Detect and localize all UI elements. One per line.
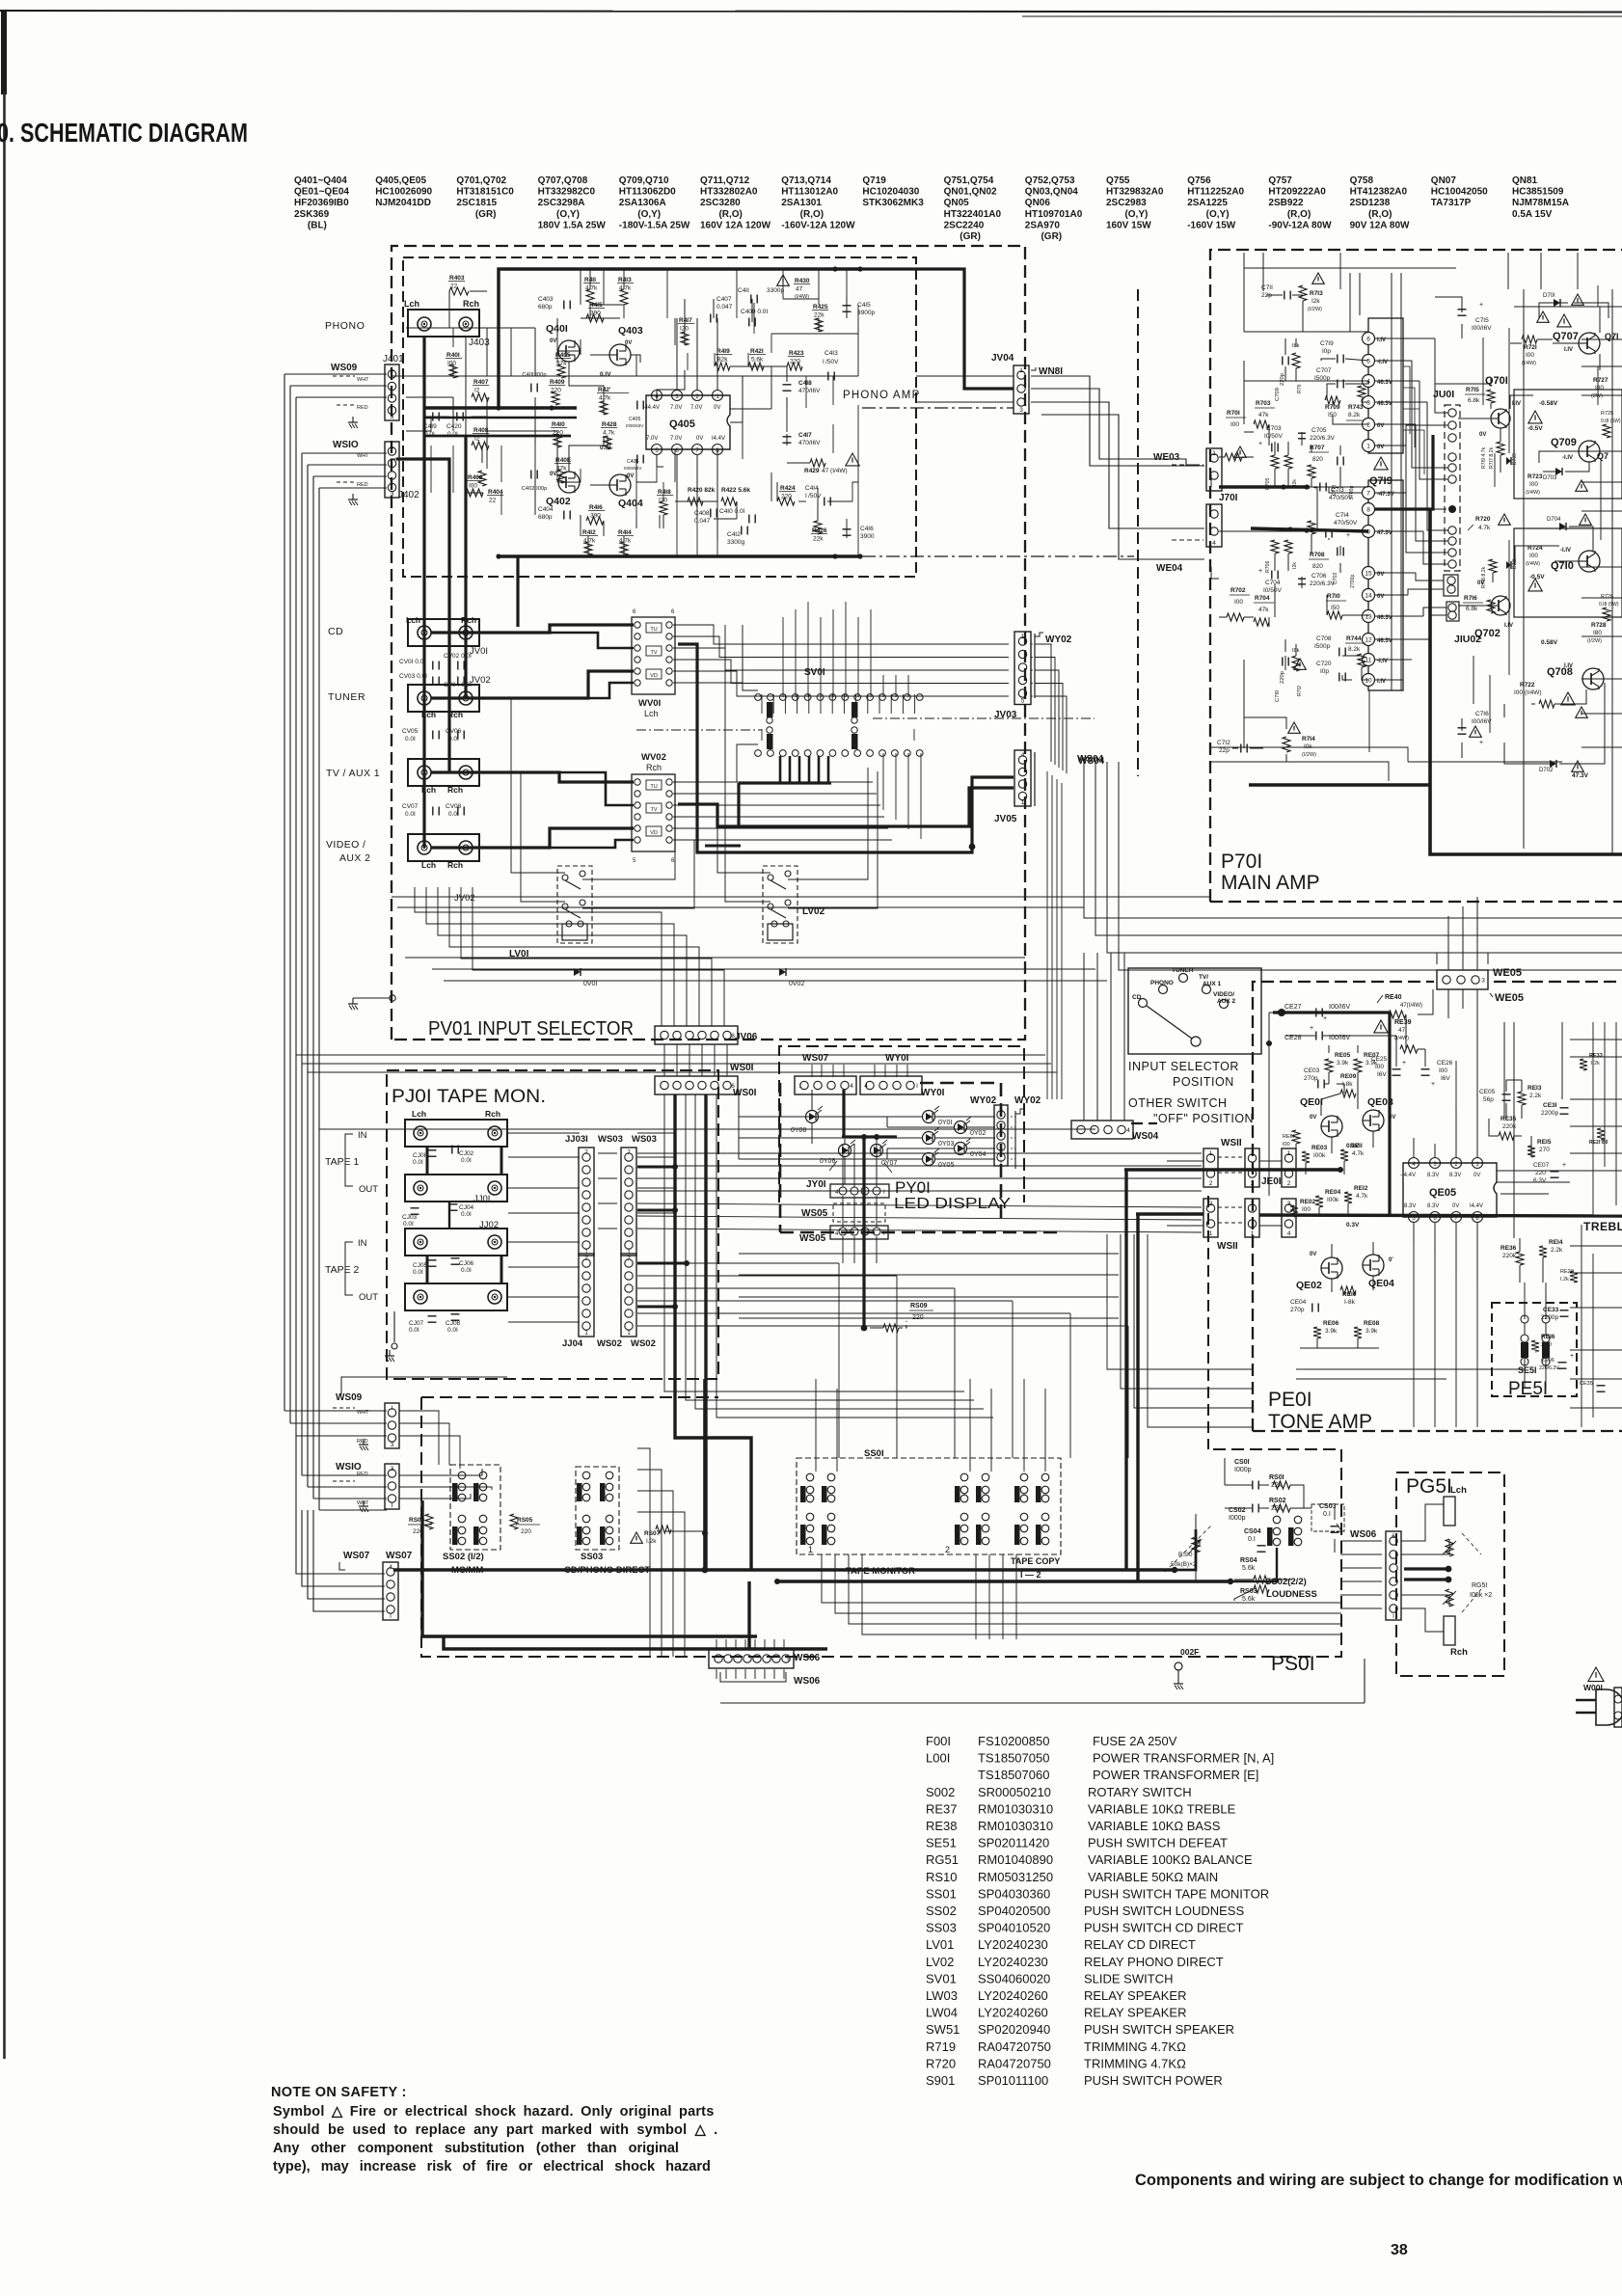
long horizontals below selector <box>296 1054 1045 1056</box>
svg-text:3.9k: 3.9k <box>1365 1328 1378 1335</box>
svg-text:5.6k: 5.6k <box>1242 1596 1256 1603</box>
svg-text:SS01: SS01 <box>926 1886 957 1901</box>
svg-text:PS0I: PS0I <box>1271 1653 1315 1675</box>
svg-text:WV02: WV02 <box>641 752 666 763</box>
svg-text:HC10026090: HC10026090 <box>375 187 432 198</box>
svg-text:C4I0 0.0I: C4I0 0.0I <box>719 508 745 515</box>
svg-text:JV03: JV03 <box>994 710 1017 720</box>
svg-text:C4I8: C4I8 <box>798 380 812 387</box>
svg-text:Lch: Lch <box>644 709 659 718</box>
svg-text:VARIABLE 10KΩ TREBLE: VARIABLE 10KΩ TREBLE <box>1088 1801 1236 1816</box>
led DY07 <box>871 1145 883 1157</box>
svg-text:R7I6: R7I6 <box>1464 595 1477 602</box>
svg-text:PE5I: PE5I <box>1508 1379 1548 1399</box>
svg-text:C4I5: C4I5 <box>857 302 871 309</box>
svg-text:NOTE ON SAFETY :: NOTE ON SAFETY : <box>271 2085 407 2100</box>
capacitor C419 C420 <box>432 413 434 421</box>
svg-text:0.I8 (5W): 0.I8 (5W) <box>1601 419 1621 424</box>
svg-text:WSIO: WSIO <box>333 440 359 450</box>
svg-text:4: 4 <box>1287 1230 1291 1237</box>
svg-text:R726: R726 <box>1601 594 1613 600</box>
svg-text:R425: R425 <box>813 304 828 311</box>
svg-text:CJ02: CJ02 <box>459 1150 474 1157</box>
svg-text:J70I: J70I <box>1219 493 1238 503</box>
warning triangle R430 <box>777 275 790 285</box>
led DY06 <box>839 1145 852 1157</box>
ic Q719 pin ladder lower <box>1368 480 1403 690</box>
selector switch to JV03 wires <box>673 625 1009 644</box>
connector WS01 lower <box>655 1076 738 1094</box>
svg-text:RE38: RE38 <box>926 1819 958 1833</box>
svg-text:RG5I: RG5I <box>1472 1582 1487 1589</box>
svg-text:0V: 0V <box>550 338 556 344</box>
svg-text:7.0V: 7.0V <box>646 436 658 442</box>
svg-text:SS02 (I/2): SS02 (I/2) <box>443 1552 484 1562</box>
svg-text:I /50V: I /50V <box>823 359 839 365</box>
svg-text:Q403: Q403 <box>618 325 643 337</box>
sv01 riser wires <box>782 617 784 697</box>
tape2 out jacks <box>405 1283 507 1310</box>
svg-text:(2W): (2W) <box>1591 393 1603 399</box>
phono wire mesh <box>423 337 425 408</box>
svg-text:Q713,Q714: Q713,Q714 <box>781 176 831 186</box>
ws06 pg51 harness wires <box>1340 1540 1382 1542</box>
svg-text:RE2I I50: RE2I I50 <box>1589 1140 1608 1146</box>
svg-text:5: 5 <box>1366 359 1370 365</box>
ic QE05 <box>1403 1163 1497 1217</box>
svg-text:R7I5: R7I5 <box>1466 387 1479 393</box>
svg-text:1: 1 <box>391 444 394 450</box>
ws09 top stubs <box>284 373 387 375</box>
svg-text:2SC2983: 2SC2983 <box>1106 198 1147 208</box>
svg-text:I.2k: I.2k <box>646 1538 657 1545</box>
ws07 bottom harness <box>296 1436 385 1574</box>
ground WS09 bottom <box>363 1439 365 1445</box>
svg-text:REII: REII <box>1350 1143 1363 1149</box>
ws01 down bundle <box>664 1094 964 1391</box>
svg-text:3: 3 <box>1019 407 1023 414</box>
svg-text:I0p: I0p <box>1322 348 1331 355</box>
svg-text:0V: 0V <box>627 473 634 479</box>
svg-text:-0.5V: -0.5V <box>1527 425 1543 432</box>
svg-text:TV: TV <box>650 807 657 813</box>
svg-text:R423: R423 <box>789 350 804 357</box>
svg-text:0.0I: 0.0I <box>461 1157 472 1164</box>
svg-text:I00: I00 <box>1234 599 1243 606</box>
svg-text:0': 0' <box>1389 1257 1393 1263</box>
video/aux2 input jacks <box>408 834 479 861</box>
svg-text:1: 1 <box>627 1330 631 1337</box>
svg-text:HT109701A0: HT109701A0 <box>1025 209 1083 220</box>
WN81 harness lines <box>1036 375 1041 377</box>
svg-text:PUSH SWITCH TAPE MONITOR: PUSH SWITCH TAPE MONITOR <box>1084 1886 1269 1901</box>
harness dashed line x1180 <box>1137 289 1139 776</box>
svg-text:Q405,QE05: Q405,QE05 <box>375 176 426 186</box>
svg-text:3: 3 <box>1481 978 1485 985</box>
svg-text:1: 1 <box>1251 1150 1255 1157</box>
svg-text:1: 1 <box>1021 634 1025 640</box>
svg-text:2SA1225: 2SA1225 <box>1187 198 1228 208</box>
svg-text:6.8k: 6.8k <box>1466 606 1478 612</box>
svg-text:CJ08: CJ08 <box>446 1320 461 1327</box>
svg-text:I00: I00 <box>1439 1067 1447 1074</box>
svg-text:R744: R744 <box>1346 635 1362 642</box>
svg-text:3: 3 <box>1251 1201 1255 1207</box>
svg-text:I2k: I2k <box>1311 298 1320 305</box>
svg-text:3900: 3900 <box>860 533 875 540</box>
svg-text:1: 1 <box>1212 450 1216 457</box>
svg-text:-90V-12A 80W: -90V-12A 80W <box>1268 220 1332 230</box>
capacitor C709 220p R711 18k <box>1280 373 1285 386</box>
svg-text:7: 7 <box>627 1256 631 1262</box>
svg-text:6: 6 <box>787 1657 791 1663</box>
svg-text:R403: R403 <box>449 275 465 282</box>
switch SE51 <box>1521 1315 1528 1323</box>
svg-text:(R,O): (R,O) <box>1350 209 1392 220</box>
svg-text:R42': R42' <box>598 387 611 393</box>
svg-text:HT412382A0: HT412382A0 <box>1350 187 1408 198</box>
svg-text:R702: R702 <box>1230 587 1246 594</box>
thick ws01 feeds <box>675 1094 751 1570</box>
svg-text:QN06: QN06 <box>1025 198 1051 208</box>
svg-text:+: + <box>1562 1162 1566 1169</box>
svg-text:2SC3298A: 2SC3298A <box>538 198 585 208</box>
svg-text:TV / AUX 1: TV / AUX 1 <box>326 768 380 779</box>
svg-text:Lch: Lch <box>421 860 436 870</box>
svg-text:2SK369: 2SK369 <box>294 209 330 220</box>
svg-text:I: I <box>392 1405 393 1412</box>
svg-text:0Y03: 0Y03 <box>938 1141 954 1148</box>
tone verticals from QE05 <box>1413 1244 1415 1427</box>
svg-text:(GR): (GR) <box>944 231 981 242</box>
svg-text:0.0I: 0.0I <box>405 736 416 743</box>
svg-text:RE08: RE08 <box>1364 1320 1380 1327</box>
svg-text:CS03: CS03 <box>1319 1503 1337 1510</box>
resistor R713 with warning <box>1312 273 1325 284</box>
diode DV01 <box>574 968 581 976</box>
thick feeds to JV05 <box>678 788 1014 826</box>
svg-text:JV06: JV06 <box>735 1032 758 1042</box>
svg-text:C4I7: C4I7 <box>798 432 812 439</box>
svg-text:I.2k: I.2k <box>1591 1061 1600 1067</box>
main amp right stubs <box>1581 338 1622 340</box>
svg-text:(O,Y): (O,Y) <box>1187 209 1229 220</box>
svg-text:ROTARY SWITCH: ROTARY SWITCH <box>1088 1785 1192 1799</box>
svg-text:Q757: Q757 <box>1268 176 1292 186</box>
svg-text:I: I <box>390 1613 392 1620</box>
svg-text:R404: R404 <box>488 489 503 496</box>
tone amp thick buses <box>1278 1009 1285 1016</box>
svg-text:2SB922: 2SB922 <box>1268 198 1304 208</box>
svg-text:should be used to replace any: should be used to replace any part marke… <box>273 2122 717 2138</box>
svg-text:0V02: 0V02 <box>789 981 804 987</box>
svg-text:WS03: WS03 <box>632 1134 657 1145</box>
svg-text:L00I: L00I <box>926 1751 950 1766</box>
svg-text:Q7I9: Q7I9 <box>1369 475 1392 487</box>
svg-text:8.3V: 8.3V <box>1427 1203 1439 1209</box>
svg-text:RS04: RS04 <box>1240 1557 1257 1564</box>
svg-text:REI2: REI2 <box>1354 1185 1368 1192</box>
svg-text:WS0I: WS0I <box>730 1063 754 1073</box>
svg-text:HF20369IB0: HF20369IB0 <box>294 198 349 208</box>
jy01 ws05 pass wires <box>842 1144 844 1187</box>
svg-text:0.0I: 0.0I <box>413 1269 423 1276</box>
svg-text:7: 7 <box>584 1256 588 1262</box>
svg-text:8.2k: 8.2k <box>1348 646 1361 653</box>
capacitor CJ01 CJ02 <box>428 1149 437 1151</box>
capacitor CJ07 CJ08 <box>428 1315 437 1317</box>
jv06 to ws01 pins <box>663 1044 665 1076</box>
svg-text:I.IV: I.IV <box>1564 347 1573 353</box>
svg-text:47(I/4W): 47(I/4W) <box>1400 1003 1422 1009</box>
svg-text:(GR): (GR) <box>456 209 496 220</box>
board outline PE51 <box>1492 1303 1577 1396</box>
ss01 to ws06 drops <box>975 1554 977 1639</box>
svg-text:3: 3 <box>391 491 394 498</box>
svg-text:RED: RED <box>357 1439 368 1445</box>
svg-text:WE05: WE05 <box>1493 967 1522 979</box>
led DY04 <box>955 1143 967 1155</box>
svg-text:0V: 0V <box>1310 1252 1316 1257</box>
svg-text:R728: R728 <box>1591 622 1607 629</box>
svg-text:REI6: REI6 <box>1541 1334 1555 1340</box>
svg-text:CV0I 0.0I: CV0I 0.0I <box>399 659 425 665</box>
svg-text:1: 1 <box>1019 367 1023 374</box>
svg-text:CJ03: CJ03 <box>402 1214 418 1221</box>
svg-text:CE26: CE26 <box>1437 1060 1453 1067</box>
svg-text:HT209222A0: HT209222A0 <box>1268 187 1326 198</box>
svg-text:TA7317P: TA7317P <box>1431 198 1472 208</box>
svg-text:LW04: LW04 <box>926 2006 958 2020</box>
svg-text:TV: TV <box>650 650 657 656</box>
capacitor CJ05 CJ06 <box>428 1259 437 1261</box>
svg-text:4: 4 <box>1021 752 1025 759</box>
svg-text:220/6.3V: 220/6.3V <box>1310 435 1336 442</box>
svg-text:RED: RED <box>357 405 368 411</box>
svg-text:CE27: CE27 <box>1284 1004 1302 1011</box>
svg-text:SV01: SV01 <box>926 1971 957 1985</box>
connector WS11 lower pair <box>1203 1199 1218 1237</box>
svg-text:470/50V: 470/50V <box>1329 495 1353 501</box>
svg-text:4: 4 <box>864 1083 868 1090</box>
svg-text:RE37: RE37 <box>926 1801 958 1816</box>
svg-text:SP04030360: SP04030360 <box>978 1886 1050 1901</box>
svg-text:Q756: Q756 <box>1187 176 1211 186</box>
svg-text:2: 2 <box>1251 1180 1255 1187</box>
svg-text:WS04: WS04 <box>1132 1131 1159 1142</box>
svg-text:6: 6 <box>1366 337 1370 343</box>
svg-text:D702: D702 <box>1539 768 1554 773</box>
thick phono jack feeds <box>391 375 424 377</box>
svg-text:WY02: WY02 <box>1014 1095 1041 1106</box>
ss01 vertical feeds <box>815 1379 817 1472</box>
svg-text:47: 47 <box>796 286 803 293</box>
svg-text:I: I <box>1076 1127 1078 1134</box>
svg-text:0.I: 0.I <box>1248 1536 1256 1543</box>
svg-text:Q719: Q719 <box>862 176 886 186</box>
svg-text:Q40I: Q40I <box>546 323 568 335</box>
diode D703 <box>1555 468 1562 475</box>
svg-text:R4I8: R4I8 <box>658 489 671 496</box>
svg-text:0Y05: 0Y05 <box>938 1162 954 1169</box>
rs07 tie to bus <box>665 1530 705 1532</box>
svg-text:JY0I: JY0I <box>806 1179 826 1190</box>
svg-text:SS0I: SS0I <box>864 1448 884 1459</box>
svg-text:JV02: JV02 <box>454 893 475 904</box>
svg-text:JV02: JV02 <box>470 675 491 686</box>
svg-text:C4I4: C4I4 <box>805 485 819 492</box>
svg-text:SS03: SS03 <box>926 1921 957 1935</box>
svg-text:-I4.4V: -I4.4V <box>1400 1173 1416 1178</box>
svg-text:RSI0: RSI0 <box>1178 1552 1193 1558</box>
svg-text:15: 15 <box>1365 571 1372 578</box>
svg-text:C709: C709 <box>1275 388 1281 401</box>
thick led distribution <box>842 1090 845 1137</box>
svg-text:F00I: F00I <box>926 1734 951 1748</box>
svg-text:WSII: WSII <box>1217 1241 1238 1252</box>
svg-text:WY0I: WY0I <box>921 1088 945 1098</box>
svg-text:7: 7 <box>1366 491 1370 498</box>
svg-text:WS04: WS04 <box>1078 756 1105 767</box>
svg-text:3.9k: 3.9k <box>1325 1328 1338 1335</box>
svg-text:D704: D704 <box>1547 517 1561 523</box>
svg-text:+: + <box>1258 441 1262 447</box>
relay LV01 <box>557 866 592 943</box>
svg-text:I500p: I500p <box>1314 643 1331 650</box>
svg-text:I0/50V: I0/50V <box>1264 433 1283 440</box>
svg-text:PHONO: PHONO <box>325 320 365 332</box>
capacitor C701 2700p rotated <box>1337 457 1338 466</box>
svg-text:R727: R727 <box>1593 377 1608 384</box>
svg-text:IN: IN <box>358 1238 367 1249</box>
svg-text:SLIDE SWITCH: SLIDE SWITCH <box>1084 1971 1173 1985</box>
svg-text:1: 1 <box>1366 444 1370 450</box>
svg-text:8.2k: 8.2k <box>1348 412 1361 419</box>
svg-text:R704: R704 <box>1255 595 1270 602</box>
svg-text:C4I3: C4I3 <box>825 350 838 357</box>
svg-text:160V 15W: 160V 15W <box>1106 220 1151 230</box>
svg-text:2.2k: 2.2k <box>1529 1093 1542 1099</box>
svg-text:2: 2 <box>945 1545 950 1554</box>
tone amp wires <box>1285 1012 1315 1013</box>
svg-text:CJ07: CJ07 <box>409 1320 424 1327</box>
svg-text:NJM78M15A: NJM78M15A <box>1512 198 1569 208</box>
svg-text:CE03: CE03 <box>1304 1067 1320 1074</box>
svg-text:(O,Y): (O,Y) <box>538 209 580 220</box>
ic Q719 pin ladder upper <box>1368 318 1403 453</box>
svg-text:SS04060020: SS04060020 <box>978 1971 1050 1985</box>
svg-text:PUSH SWITCH DEFEAT: PUSH SWITCH DEFEAT <box>1088 1836 1228 1850</box>
output stage boxes <box>1514 390 1622 499</box>
svg-text:RG51: RG51 <box>926 1852 959 1867</box>
svg-text:RE33: RE33 <box>1589 1053 1603 1059</box>
svg-text:WS02: WS02 <box>631 1338 656 1349</box>
connector JE01 strips <box>1282 1148 1296 1187</box>
main amp wire mesh <box>1243 253 1245 332</box>
svg-text:FS10200850: FS10200850 <box>978 1734 1049 1748</box>
svg-text:RM01030310: RM01030310 <box>978 1801 1053 1816</box>
svg-text:I0p: I0p <box>1320 668 1329 675</box>
phono input jack pair J401/J403 <box>408 310 479 337</box>
svg-text:R430: R430 <box>795 278 810 284</box>
transistor QE02 <box>1321 1257 1342 1279</box>
board outline PY01 heavy dashes <box>779 1083 782 1232</box>
svg-text:R429: R429 <box>804 468 820 474</box>
svg-text:7.0V: 7.0V <box>670 405 682 411</box>
phono extra mesh 2 <box>406 375 858 377</box>
svg-text:I00: I00 <box>1526 352 1534 359</box>
connector WE03 pins detail <box>1210 474 1212 487</box>
svg-text:3.9k: 3.9k <box>1337 1060 1349 1067</box>
ground at WS10 top <box>352 494 354 500</box>
svg-text:820: 820 <box>1312 456 1323 463</box>
svg-text:0.047: 0.047 <box>716 304 733 311</box>
svg-text:I00/I6V: I00/I6V <box>1472 718 1492 725</box>
svg-text:RE0I: RE0I <box>1283 1134 1295 1140</box>
tape1 out jacks JJ01 <box>405 1175 507 1202</box>
svg-text:+: + <box>1570 1353 1574 1360</box>
svg-text:C408: C408 <box>694 510 710 517</box>
svg-text:-I.IV: -I.IV <box>1560 548 1571 554</box>
svg-text:220: 220 <box>912 1314 924 1321</box>
svg-text:12: 12 <box>1365 637 1372 644</box>
svg-text:QE01~QE04: QE01~QE04 <box>294 187 349 198</box>
svg-text:PUSH SWITCH POWER: PUSH SWITCH POWER <box>1084 2073 1223 2088</box>
svg-text:Q709: Q709 <box>1551 437 1577 448</box>
left harness vertical bundle <box>284 374 285 1411</box>
svg-text:0.0I: 0.0I <box>448 811 459 818</box>
ws09/ws10 bottom to ps01 wires <box>399 1411 439 1465</box>
svg-text:-I.IV: -I.IV <box>1562 455 1573 461</box>
ws09 bottom stubs <box>284 1410 387 1412</box>
svg-text:R4I7: R4I7 <box>679 317 692 324</box>
svg-text:QN03,QN04: QN03,QN04 <box>1025 187 1078 198</box>
svg-text:I4.4V: I4.4V <box>712 436 725 442</box>
svg-text:I-8k: I-8k <box>1344 1299 1356 1306</box>
svg-text:VARIABLE 100KΩ BALANCE: VARIABLE 100KΩ BALANCE <box>1088 1852 1253 1867</box>
svg-text:VARIABLE 10KΩ BASS: VARIABLE 10KΩ BASS <box>1088 1819 1221 1833</box>
svg-text:RED: RED <box>357 1472 368 1477</box>
svg-text:I6V: I6V <box>1441 1075 1450 1082</box>
svg-text:R719: R719 <box>926 2039 956 2054</box>
svg-text:QN07: QN07 <box>1431 176 1457 186</box>
svg-text:220p: 220p <box>1280 373 1285 386</box>
svg-text:0.0I: 0.0I <box>413 1159 423 1166</box>
connector JV06 <box>655 1026 738 1044</box>
svg-text:680p: 680p <box>538 304 553 311</box>
svg-text:"OFF" POSITION: "OFF" POSITION <box>1153 1112 1254 1125</box>
svg-text:Q7I0: Q7I0 <box>1551 560 1574 572</box>
svg-text:OTHER SWITCH: OTHER SWITCH <box>1128 1096 1228 1110</box>
J701 connector wires <box>1031 376 1204 466</box>
svg-text:SE51: SE51 <box>926 1836 957 1850</box>
svg-text:WE04: WE04 <box>1156 563 1183 574</box>
svg-text:R706: R706 <box>1265 560 1271 573</box>
svg-text:Rch: Rch <box>461 615 476 625</box>
svg-text:Lch: Lch <box>404 299 419 309</box>
top parts legend table <box>294 176 1569 242</box>
svg-text:QN01,QN02: QN01,QN02 <box>944 187 997 198</box>
svg-text:I6V: I6V <box>1377 1071 1387 1078</box>
thick black distribution lines <box>393 1568 1175 1572</box>
svg-text:LED DISPLAY: LED DISPLAY <box>894 1196 1011 1212</box>
svg-text:Q405: Q405 <box>669 419 695 430</box>
page top rule <box>0 11 1622 13</box>
svg-text:TONE AMP: TONE AMP <box>1268 1411 1372 1433</box>
svg-text:HC3851509: HC3851509 <box>1512 187 1564 198</box>
svg-text:0Y0I: 0Y0I <box>938 1120 952 1126</box>
svg-text:PY0I: PY0I <box>895 1178 931 1197</box>
